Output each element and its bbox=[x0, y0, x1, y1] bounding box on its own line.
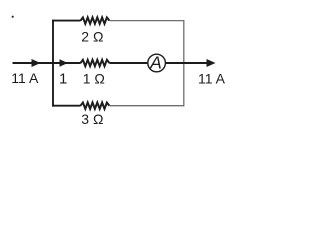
wire: left vertical bus bbox=[52, 20, 54, 107]
svg-text:A: A bbox=[149, 53, 162, 73]
stray dot bbox=[12, 16, 14, 18]
wire: top branch left segment bbox=[52, 20, 81, 22]
svg-text:1 Ω: 1 Ω bbox=[83, 71, 105, 87]
svg-text:11 A: 11 A bbox=[11, 70, 39, 86]
wire: top branch right segment (light) bbox=[109, 20, 184, 22]
arrow: branch current direction bbox=[60, 59, 68, 67]
svg-text:11 A: 11 A bbox=[198, 70, 226, 86]
resistor 3 Ohm (bottom branch) bbox=[81, 103, 110, 109]
wire: resistor to ammeter bbox=[109, 62, 148, 64]
wire: middle branch, node 1 to resistor bbox=[53, 62, 81, 64]
wire: ammeter to output bbox=[165, 62, 208, 64]
arrow: output current direction bbox=[207, 59, 216, 67]
wire: left input lead bbox=[13, 62, 54, 64]
wire: bottom branch left segment bbox=[52, 105, 81, 107]
wire: bottom branch right segment (light) bbox=[109, 105, 184, 107]
svg-text:1: 1 bbox=[59, 70, 67, 87]
arrow: input current direction bbox=[32, 59, 41, 67]
svg-text:3 Ω: 3 Ω bbox=[81, 111, 103, 127]
wire: right vertical bus (light) bbox=[183, 20, 185, 106]
ammeter A bbox=[148, 54, 166, 72]
svg-text:2 Ω: 2 Ω bbox=[81, 28, 103, 44]
resistor 2 Ohm (top branch) bbox=[81, 17, 110, 23]
resistor 1 Ohm (middle branch) bbox=[81, 60, 110, 66]
